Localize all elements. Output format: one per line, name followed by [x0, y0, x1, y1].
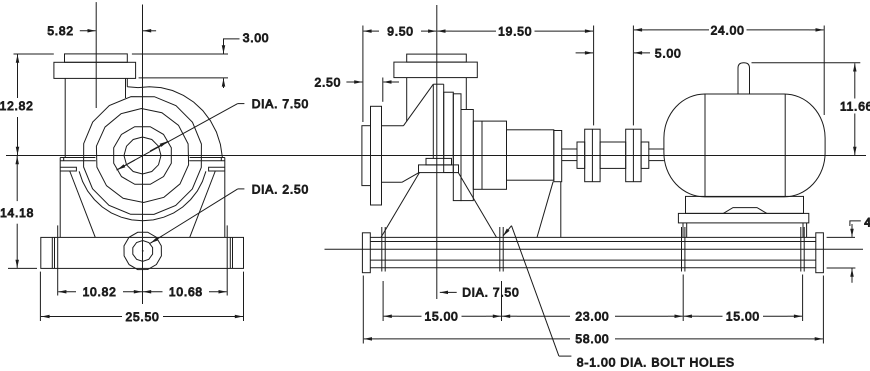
leader DIA 2.50 arrow — [151, 236, 162, 243]
saddle arc — [79, 171, 206, 221]
dim 15a line right — [462, 315, 487, 317]
ext line coupling right — [632, 26, 634, 126]
svg-text:24.00: 24.00 — [711, 23, 745, 37]
svg-text:8-1.00 DIA. BOLT HOLES: 8-1.00 DIA. BOLT HOLES — [577, 355, 735, 369]
right bearing tab lower line — [189, 160, 225, 162]
coupling disc right — [626, 129, 641, 182]
dim 23 left arrow — [502, 315, 517, 317]
shaft pump-side top — [562, 148, 577, 150]
dim 12.82 up arrow — [17, 55, 19, 99]
impeller bore circle DIA 7.50 — [114, 127, 172, 185]
motor lifting lug — [738, 63, 750, 94]
suction flange body — [371, 106, 382, 205]
bolt hole 4 right edge — [803, 227, 805, 272]
right tab end tick — [220, 158, 222, 161]
leader DIA 7.50 line — [117, 104, 238, 171]
dim 25.50 line right — [163, 316, 243, 318]
ext line rail bottom right — [827, 267, 856, 269]
svg-text:9.50: 9.50 — [387, 24, 414, 38]
dim 25.50 left arrow — [41, 316, 56, 318]
ext line coupling left — [593, 26, 595, 126]
dim 19.50 line left — [452, 30, 496, 32]
baseplate left channel line a — [51, 237, 53, 268]
dim 15b right arrow — [788, 315, 803, 317]
dim 2.50 right arrow — [383, 81, 399, 83]
dim 14.18 up arrow — [16, 156, 18, 201]
dim 19.50 left arrow — [437, 30, 452, 32]
ext line lug top — [752, 62, 861, 64]
casing step below flange — [126, 78, 128, 86]
dim 25.50 right arrow — [228, 316, 243, 318]
pump leg right slant — [458, 173, 496, 238]
dim 9.50 right arrow — [421, 30, 436, 32]
bolt leader arrow — [503, 226, 512, 236]
ext line flange top right — [132, 53, 228, 55]
ext line rail top right — [827, 236, 855, 238]
frame ring 3 — [461, 110, 473, 201]
svg-text:25.50: 25.50 — [125, 310, 159, 324]
coupling step ring left — [577, 142, 585, 168]
dim 15a right arrow — [486, 315, 501, 317]
discharge flange top plate (front view) — [65, 54, 128, 62]
motor pedestal left line b — [686, 223, 688, 238]
dim 15a left arrow — [384, 315, 399, 317]
pedestal right edge — [224, 158, 226, 238]
coupling disc right split — [632, 129, 634, 182]
left support leg diagonal — [70, 171, 96, 237]
dim 58 right arrow — [808, 338, 823, 340]
bolt leader line — [512, 226, 559, 356]
bolt leader stub — [559, 355, 572, 357]
svg-text:3.00: 3.00 — [243, 31, 270, 45]
rail top edge — [370, 236, 816, 238]
bolt hole 3 left edge — [681, 227, 683, 272]
dim 58 left arrow — [364, 338, 379, 340]
shaft circle — [124, 137, 161, 174]
dim 24.00 line right — [747, 29, 810, 31]
dim 23 right arrow — [668, 315, 683, 317]
baseplate right channel line a — [229, 237, 231, 268]
rail right end cap — [816, 233, 824, 273]
dim 3.00 down arrow — [223, 43, 225, 54]
dim 24.00 left arrow — [634, 29, 648, 31]
ext line 25.50 left — [39, 272, 41, 321]
bolt hole 2 left edge — [499, 227, 501, 272]
right anchor bolt line — [226, 225, 228, 295]
flange neck right line — [125, 78, 127, 98]
suction flange face plate — [362, 126, 371, 186]
shaft motor-side top — [649, 148, 664, 150]
dim 24.00 line left — [648, 29, 709, 31]
dim 15b line right — [763, 315, 788, 317]
discharge flange body (front view) — [54, 62, 136, 78]
bolt hole 1 left edge — [381, 227, 383, 272]
discharge neck right — [465, 78, 467, 110]
suction pipe top line — [382, 125, 404, 127]
ext line 58 right — [822, 276, 824, 344]
svg-text:4: 4 — [864, 215, 870, 229]
volute outer wall circle — [84, 97, 202, 215]
right step block — [209, 167, 225, 171]
right bearing tab upper line — [190, 157, 225, 159]
dim 19.50 line right — [535, 30, 579, 32]
svg-text:5.00: 5.00 — [655, 46, 682, 60]
dim 5.00 left arrow — [576, 52, 594, 54]
svg-text:DIA. 7.50: DIA. 7.50 — [252, 97, 309, 111]
dim 15a line left — [399, 315, 422, 317]
motor foot pad — [686, 196, 804, 213]
volute spiral outer profile — [127, 87, 222, 158]
baseplate front view — [41, 237, 244, 268]
svg-text:14.18: 14.18 — [0, 206, 34, 220]
dim 11.66 up arrow — [854, 63, 856, 98]
ext line 25.50 right — [243, 272, 245, 321]
ext line 15a left — [382, 281, 384, 321]
frame body — [473, 121, 506, 189]
rail left end cap — [362, 233, 370, 273]
frame pedestal slant — [537, 182, 553, 238]
baseplate left channel line b — [54, 237, 56, 268]
dim 11.66 down arrow — [854, 114, 856, 156]
discharge neck left — [406, 78, 408, 122]
svg-text:10.82: 10.82 — [83, 285, 117, 299]
foot bracket lower rect — [419, 165, 459, 173]
dim 19.50 right arrow — [578, 30, 593, 32]
bearing end cap — [554, 131, 562, 182]
rail fourth line — [370, 259, 816, 261]
left anchor bolt line — [57, 225, 59, 295]
bolt hole circle DIA 2.50 — [133, 241, 153, 262]
discharge flange body (side view) — [394, 62, 477, 78]
motor pedestal right line b — [806, 223, 808, 238]
ext line 15a right — [501, 281, 503, 321]
dim 10.68 left arrow — [143, 291, 163, 293]
bolt hole 4 left edge — [800, 227, 802, 272]
rail bottom edge — [370, 267, 816, 269]
motor body — [664, 94, 825, 197]
frame ring 1 — [444, 92, 454, 172]
dim 25.50 line left — [41, 316, 122, 318]
casing band left line — [432, 84, 434, 158]
bearing cylinder — [507, 130, 554, 180]
flange neck left line — [64, 78, 66, 157]
right view pump vertical centerline — [436, 5, 438, 299]
dim 58 line left — [379, 338, 570, 340]
motor base plate — [678, 213, 808, 223]
discharge flange top plate (side view) — [407, 54, 467, 62]
svg-text:DIA. 2.50: DIA. 2.50 — [252, 182, 309, 196]
coupling disc left split — [591, 129, 593, 182]
frame pedestal right edge — [560, 182, 562, 238]
bolt hole boss circle — [124, 232, 161, 269]
motor pedestal right line a — [802, 223, 804, 238]
dim 4 bracket — [850, 221, 861, 226]
svg-text:DIA. 7.50: DIA. 7.50 — [462, 286, 519, 300]
dim 3.00 bracket — [224, 39, 240, 45]
dim 23 line right — [615, 315, 668, 317]
motor foot trapezoid — [723, 208, 767, 214]
dim 10.82 left arrow — [58, 291, 76, 293]
svg-text:12.82: 12.82 — [0, 99, 34, 113]
ext line 9.50 left — [362, 26, 364, 123]
ext line baseplate bottom left — [8, 267, 37, 269]
left step block — [60, 167, 76, 171]
leader DIA 7.50 arrow upper — [150, 141, 168, 151]
svg-text:2.50: 2.50 — [315, 75, 342, 89]
note DIA 7.50 arrow — [440, 291, 457, 293]
leader DIA 2.50 line — [150, 189, 238, 244]
motor body right seam — [784, 94, 786, 197]
coupling disc left — [585, 129, 600, 182]
volute inner wall circle — [96, 109, 188, 203]
casing band right line — [443, 84, 445, 158]
dim 4 down arrow — [851, 224, 853, 237]
dim 4 up arrow — [851, 269, 853, 283]
leader DIA 2.50 stub — [238, 188, 245, 190]
motor pedestal left line a — [682, 223, 684, 238]
bolt hole center dot — [142, 250, 144, 252]
leader DIA 7.50 arrow lower — [117, 160, 135, 170]
left view vertical centerline — [142, 5, 144, 305]
dim 12.82 down arrow — [17, 117, 19, 155]
motor body left seam — [704, 94, 706, 197]
ext line 58 left — [362, 276, 364, 344]
bolt hole 2 right edge — [502, 227, 504, 272]
dim 24.00 right arrow — [809, 29, 824, 31]
dim 23 line left — [517, 315, 570, 317]
shaft motor-side bottom — [649, 160, 664, 162]
dim 15b left arrow — [684, 315, 699, 317]
dim 10.82 right arrow — [123, 291, 142, 293]
dim 58 line right — [615, 338, 808, 340]
coupling step ring right — [641, 142, 649, 168]
dim 3.00 up arrow — [223, 78, 225, 88]
dim 9.50 left arrow — [363, 30, 379, 32]
suction-flange offset centerline — [95, 2, 97, 108]
left bearing tab lower line — [60, 160, 96, 162]
bolt hole 3 right edge — [684, 227, 686, 272]
svg-text:5.82: 5.82 — [47, 24, 74, 38]
foot bracket upper rect — [426, 158, 452, 165]
dim 15b line left — [699, 315, 723, 317]
left bearing tab upper line — [60, 157, 95, 159]
dim 14.18 down arrow — [16, 224, 18, 268]
svg-text:58.00: 58.00 — [575, 332, 609, 346]
suction pipe bottom line — [382, 181, 402, 183]
dim 5.82 left arrow — [80, 30, 96, 32]
ext line motor rear — [823, 26, 825, 116]
svg-text:19.50: 19.50 — [498, 24, 532, 38]
baseplate right channel line b — [232, 237, 234, 268]
svg-text:11.66: 11.66 — [840, 99, 870, 113]
rail second line — [370, 241, 816, 243]
coupling spacer — [600, 142, 626, 168]
right support leg diagonal — [190, 171, 216, 237]
svg-text:15.00: 15.00 — [424, 309, 458, 323]
dim 5.00 right arrow — [634, 52, 650, 54]
ext line casing step — [139, 77, 228, 79]
dim 2.50 left arrow — [346, 81, 362, 83]
pedestal left edge — [59, 158, 61, 238]
ext line 15b right — [802, 275, 804, 322]
dim 5.82 right arrow — [143, 30, 156, 32]
frame body seam — [481, 121, 483, 189]
casing bottom slant — [402, 172, 420, 182]
frame ring 2 — [453, 94, 461, 201]
ext line 2.50 right — [382, 78, 384, 102]
bolt row centerline — [325, 248, 864, 250]
svg-text:10.68: 10.68 — [169, 285, 203, 299]
bolt hole 1 right edge — [384, 227, 386, 272]
left tab end tick — [63, 158, 65, 161]
svg-text:23.00: 23.00 — [575, 309, 609, 323]
svg-text:15.00: 15.00 — [726, 309, 760, 323]
casing front slant face — [404, 84, 434, 126]
shaft pump-side bottom — [562, 160, 577, 162]
horizontal shaft centerline — [6, 155, 866, 157]
ext line flange top — [14, 53, 54, 55]
leader DIA 7.50 stub — [238, 103, 245, 105]
dim 10.68 right arrow — [209, 291, 227, 293]
casing band cap — [433, 83, 443, 85]
ext line 23 right — [682, 275, 684, 322]
pump leg left slant — [381, 173, 419, 238]
